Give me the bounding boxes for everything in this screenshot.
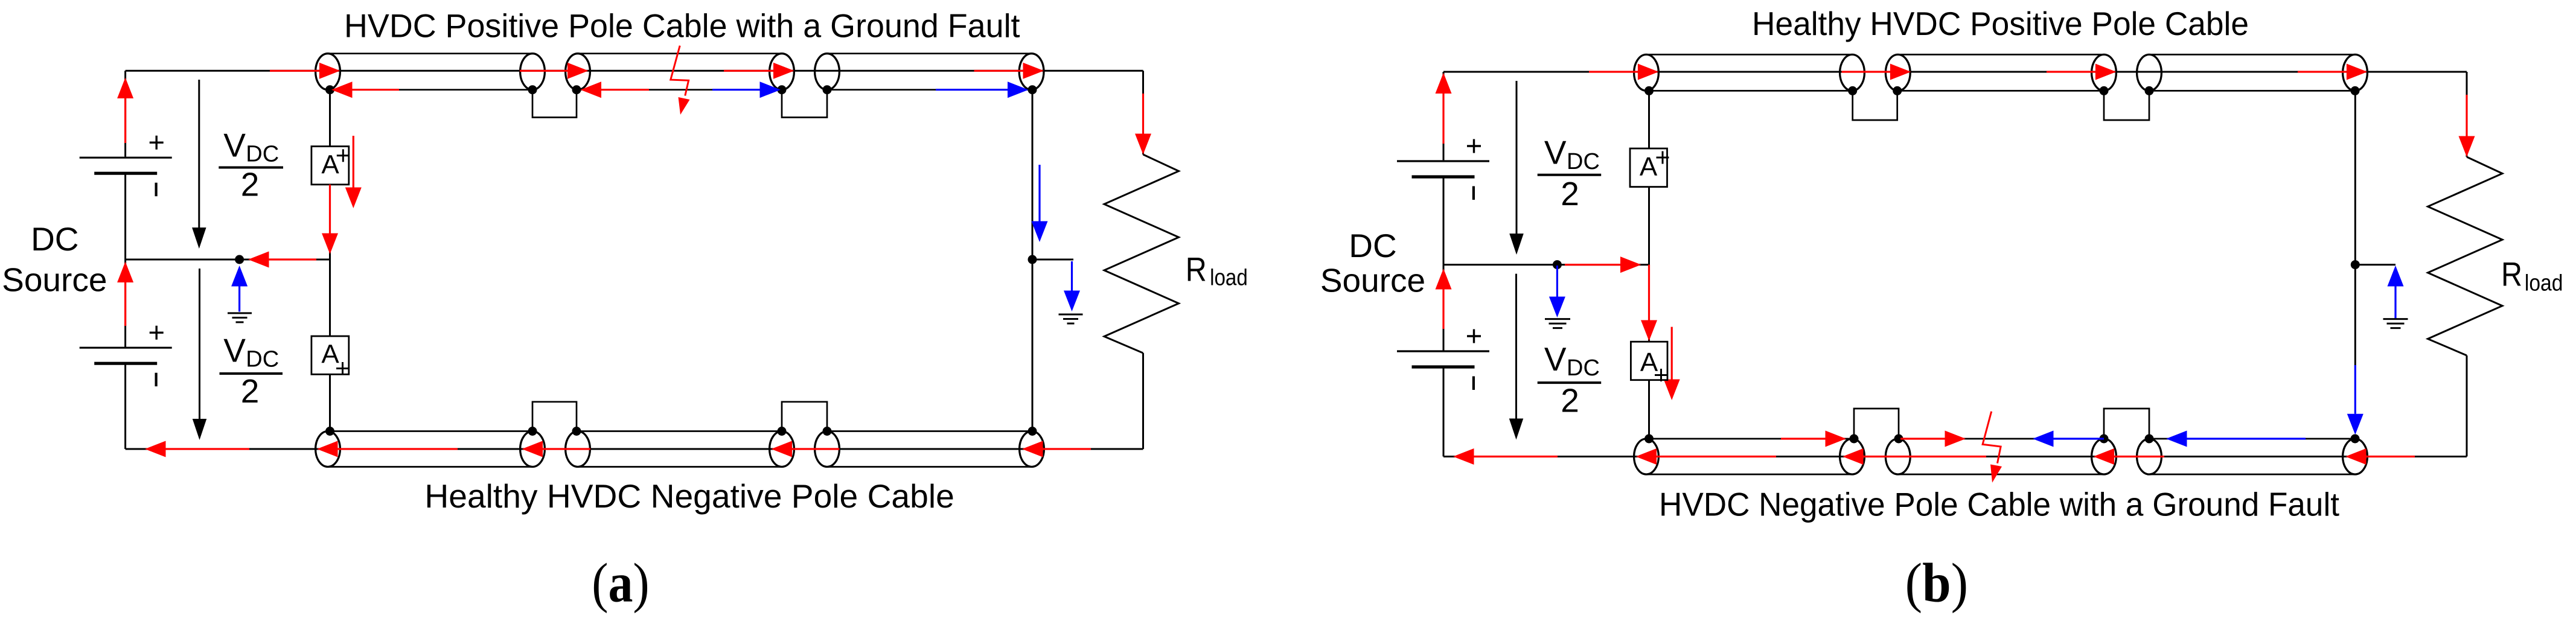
- svg-text:A: A: [321, 340, 339, 369]
- svg-text:V: V: [1544, 340, 1567, 378]
- svg-text:V: V: [223, 127, 246, 164]
- svg-text:Healthy HVDC Positive Pole Cab: Healthy HVDC Positive Pole Cable: [1752, 5, 2249, 42]
- svg-text:2: 2: [1561, 381, 1579, 419]
- svg-text:R: R: [1186, 250, 1207, 288]
- svg-text:load: load: [1210, 266, 1248, 291]
- svg-text:DC: DC: [1349, 227, 1396, 264]
- svg-text:(a): (a): [592, 552, 649, 614]
- svg-text:HVDC Negative Pole Cable with: HVDC Negative Pole Cable with a Ground F…: [1659, 486, 2339, 523]
- svg-text:Source: Source: [1320, 262, 1425, 299]
- svg-text:DC: DC: [1567, 149, 1600, 174]
- svg-text:(b): (b): [1905, 552, 1969, 614]
- svg-text:R: R: [2501, 255, 2522, 293]
- svg-text:Source: Source: [2, 261, 107, 298]
- svg-text:Healthy HVDC Negative Pole Cab: Healthy HVDC Negative Pole Cable: [424, 477, 954, 515]
- svg-text:load: load: [2525, 270, 2563, 296]
- svg-text:DC: DC: [246, 346, 279, 372]
- svg-text:DC: DC: [31, 220, 78, 258]
- svg-text:HVDC Positive Pole Cable with: HVDC Positive Pole Cable with a Ground F…: [344, 7, 1020, 44]
- svg-text:2: 2: [1561, 175, 1579, 212]
- svg-text:DC: DC: [246, 141, 279, 167]
- svg-text:A: A: [1640, 348, 1658, 377]
- svg-text:A: A: [321, 150, 339, 179]
- svg-text:V: V: [223, 332, 246, 369]
- svg-text:A: A: [1640, 152, 1658, 182]
- svg-text:DC: DC: [1567, 355, 1600, 381]
- svg-text:V: V: [1544, 134, 1567, 171]
- svg-text:2: 2: [241, 166, 260, 203]
- svg-text:2: 2: [241, 372, 260, 410]
